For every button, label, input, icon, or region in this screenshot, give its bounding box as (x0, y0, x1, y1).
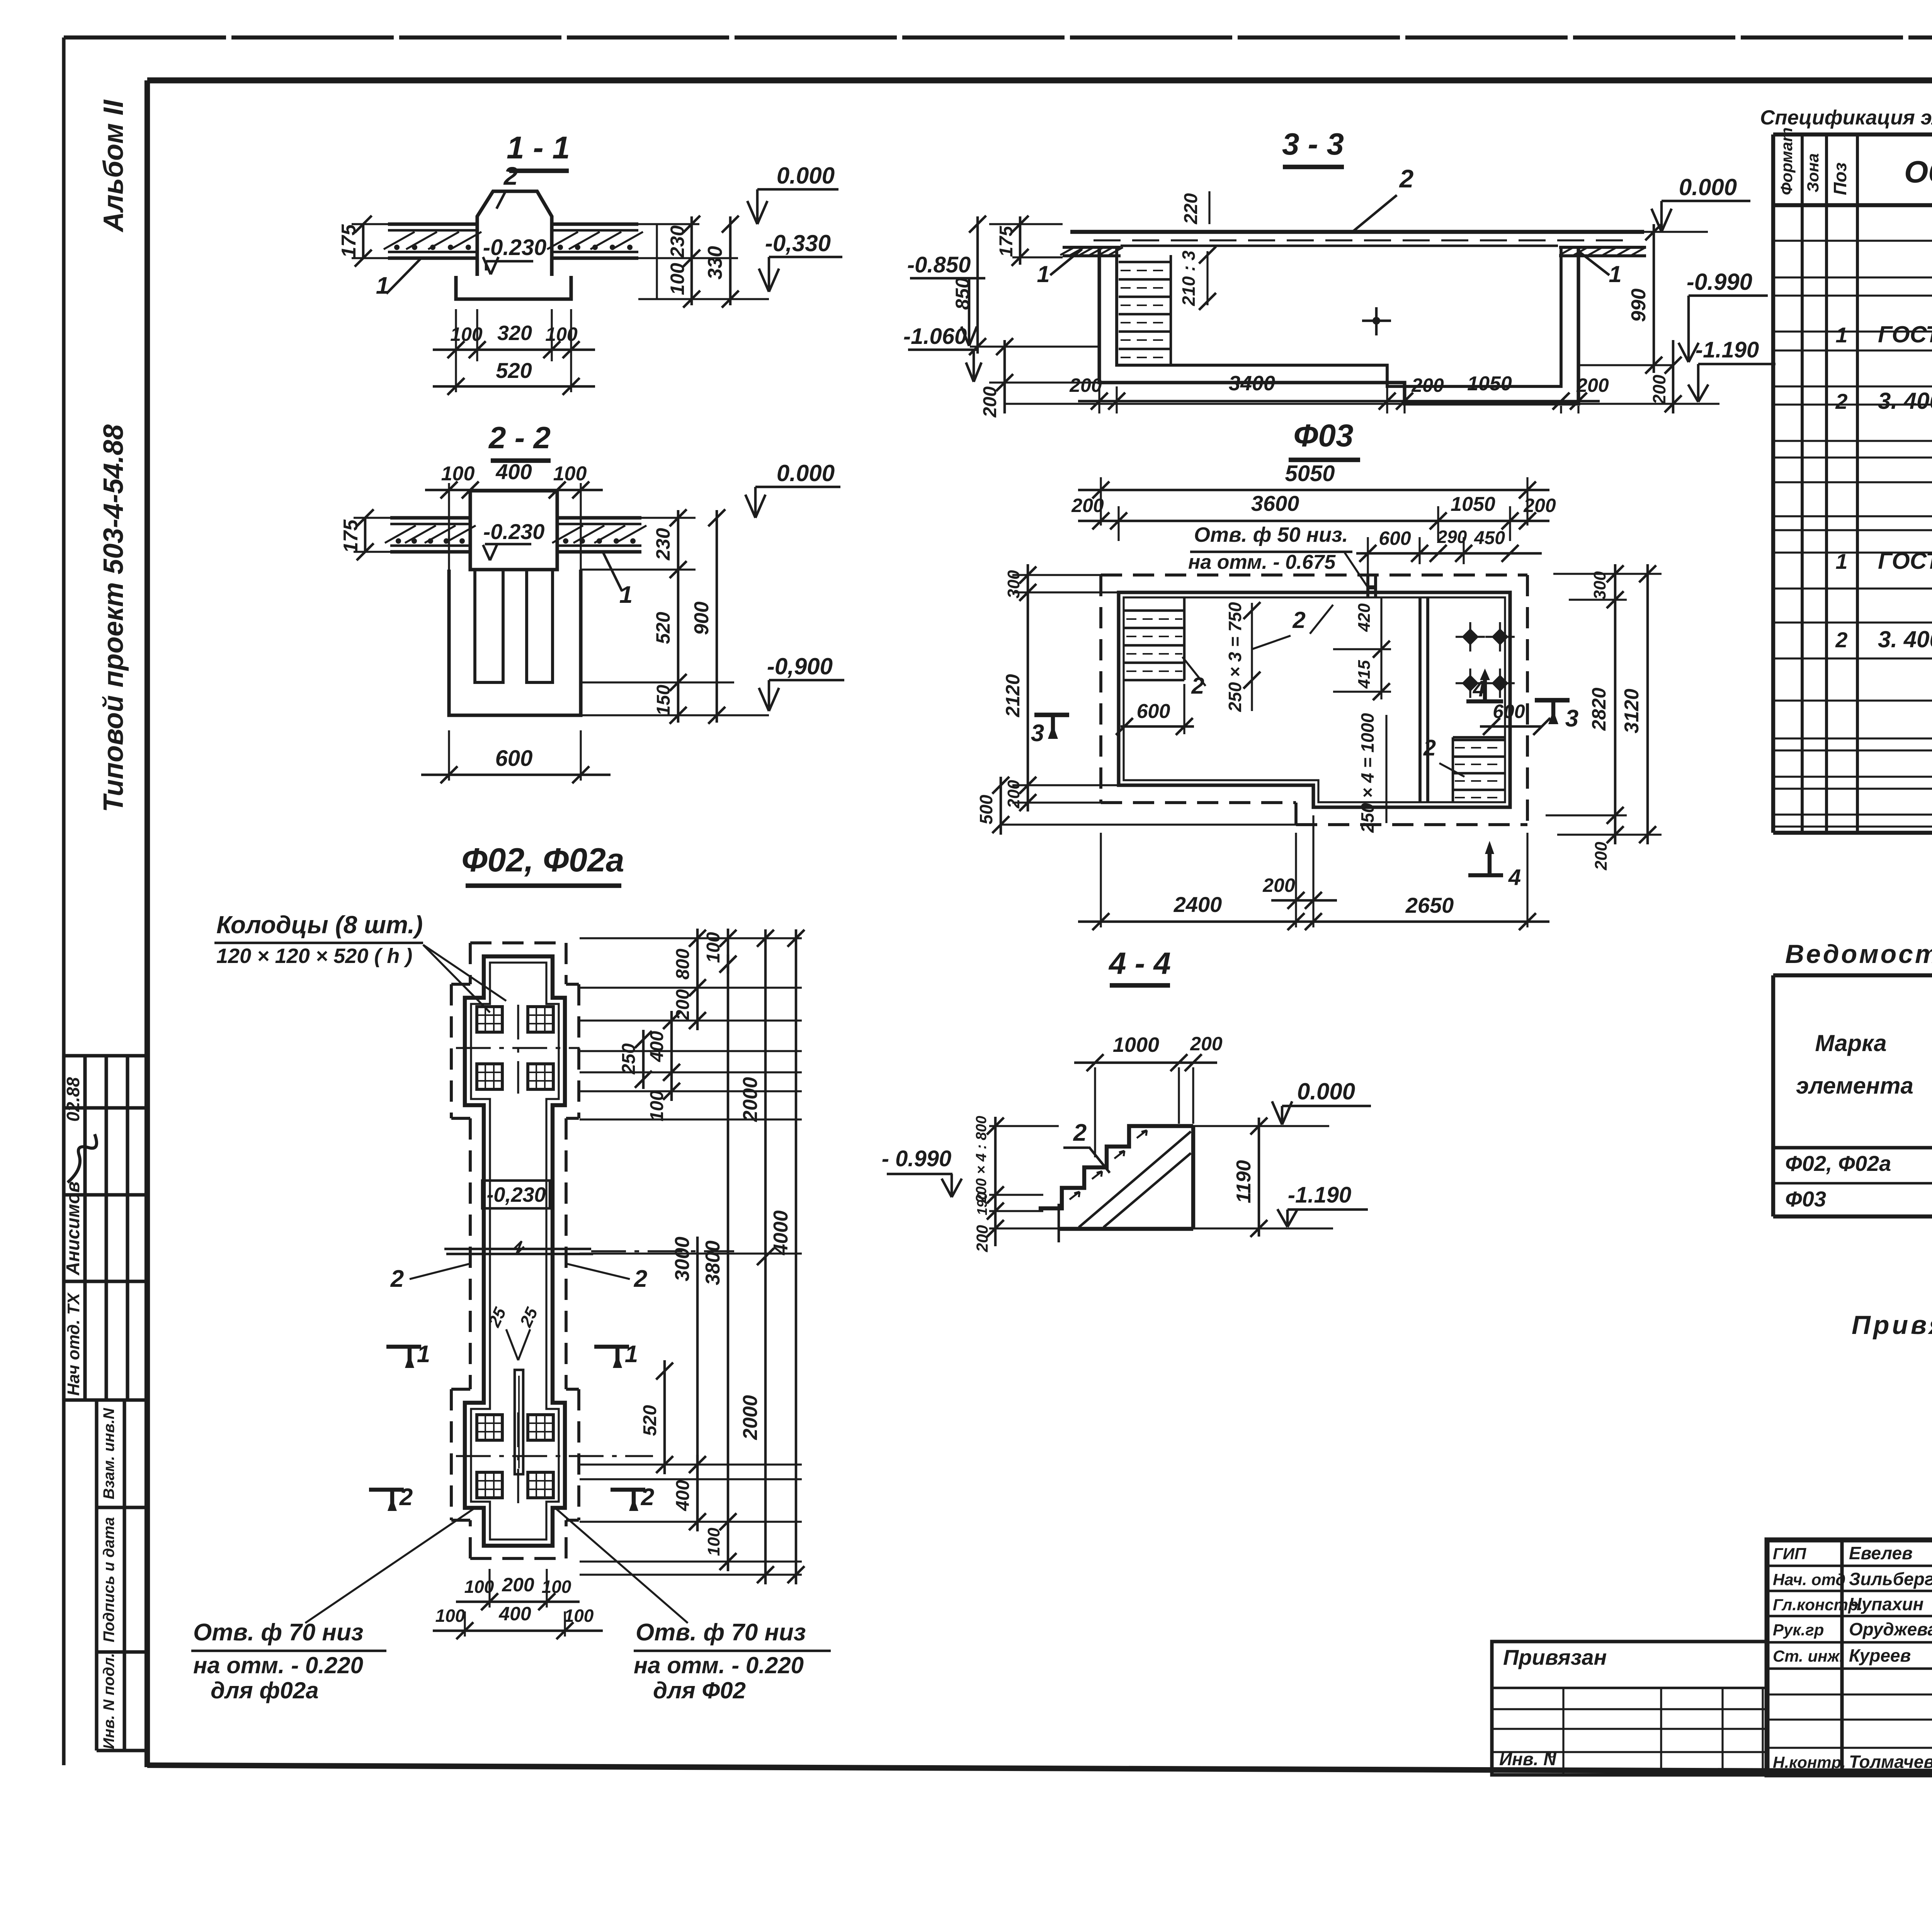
svg-text:100: 100 (564, 1606, 594, 1626)
svg-text:200: 200 (1649, 374, 1669, 405)
svg-text:600: 600 (1137, 700, 1170, 723)
svg-text:100: 100 (435, 1606, 465, 1626)
svg-text:о: о (1549, 1747, 1556, 1760)
svg-text:2: 2 (503, 162, 518, 190)
svg-text:2000: 2000 (739, 1395, 762, 1440)
svg-text:320: 320 (497, 322, 532, 345)
svg-text:Обозначение: Обозначение (1904, 155, 1932, 189)
svg-text:Чупахин: Чупахин (1849, 1594, 1923, 1614)
svg-text:4: 4 (1508, 865, 1521, 890)
svg-text:1: 1 (625, 1341, 638, 1368)
svg-text:100: 100 (542, 1577, 571, 1597)
svg-text:1: 1 (376, 272, 389, 299)
svg-text:Ст. инж.: Ст. инж. (1773, 1647, 1844, 1665)
svg-text:200: 200 (502, 1574, 534, 1596)
svg-text:175: 175 (338, 224, 360, 258)
svg-text:для ф02а: для ф02а (211, 1677, 319, 1703)
svg-text:для Ф02: для Ф02 (653, 1677, 746, 1703)
svg-text:Зильбергов: Зильбергов (1849, 1569, 1932, 1589)
svg-text:2: 2 (634, 1266, 647, 1292)
svg-text:Н.контр.: Н.контр. (1773, 1753, 1846, 1771)
svg-text:Отв. ф 70 низ: Отв. ф 70 низ (636, 1619, 806, 1646)
svg-text:Отв. ф 70 низ: Отв. ф 70 низ (193, 1619, 363, 1646)
svg-text:-1.190: -1.190 (1696, 337, 1759, 362)
svg-text:200: 200 (1069, 374, 1102, 396)
svg-text:2: 2 (399, 1484, 413, 1511)
svg-text:2 - 2: 2 - 2 (488, 420, 551, 455)
svg-text:100: 100 (545, 323, 578, 345)
svg-text:элемента: элемента (1796, 1073, 1913, 1099)
svg-text:Альбом II: Альбом II (98, 99, 129, 233)
svg-text:3400: 3400 (1229, 372, 1275, 395)
svg-text:2: 2 (641, 1484, 654, 1511)
svg-text:250 × 4 = 1000: 250 × 4 = 1000 (1357, 713, 1378, 833)
svg-text:3000: 3000 (671, 1237, 694, 1281)
svg-text:1190: 1190 (1233, 1160, 1255, 1203)
svg-text:520: 520 (652, 612, 674, 644)
svg-text:1050: 1050 (1467, 373, 1512, 395)
svg-text:1: 1 (619, 582, 633, 608)
svg-text:3. 400 - 6 / 76: 3. 400 - 6 / 76 (1878, 388, 1932, 414)
svg-text:200: 200 (1523, 495, 1556, 516)
svg-text:Оруджева: Оруджева (1849, 1619, 1932, 1639)
svg-text:230: 230 (667, 225, 688, 258)
svg-text:-0,230: -0,230 (486, 1183, 546, 1206)
svg-text:300: 300 (1004, 570, 1023, 599)
svg-text:900: 900 (690, 602, 713, 635)
svg-text:200: 200 (1190, 1033, 1223, 1055)
svg-text:3120: 3120 (1621, 689, 1643, 733)
svg-text:4000: 4000 (770, 1210, 792, 1256)
svg-text:Формат: Формат (1777, 128, 1796, 195)
svg-text:600: 600 (1379, 527, 1411, 549)
svg-text:Привязан: Привязан (1503, 1645, 1607, 1669)
svg-text:Ф03: Ф03 (1293, 418, 1353, 453)
svg-text:Анисимов: Анисимов (63, 1181, 83, 1276)
svg-text:200: 200 (1592, 842, 1611, 871)
svg-text:2: 2 (1399, 164, 1414, 193)
svg-text:-0.990: -0.990 (1687, 269, 1752, 295)
svg-text:3800: 3800 (702, 1240, 724, 1285)
svg-text:200: 200 (973, 1225, 991, 1252)
svg-text:420: 420 (1355, 603, 1374, 632)
svg-text:100: 100 (450, 323, 483, 345)
svg-text:3600: 3600 (1251, 491, 1299, 515)
svg-text:4 - 4: 4 - 4 (1108, 946, 1171, 980)
svg-text:1: 1 (1609, 261, 1621, 287)
svg-text:0.000: 0.000 (1297, 1079, 1355, 1104)
svg-text:300: 300 (1590, 571, 1609, 600)
svg-text:Нач отд. ТХ: Нач отд. ТХ (64, 1292, 83, 1396)
svg-text:Инв. N подл.: Инв. N подл. (100, 1653, 117, 1749)
svg-text:0.000: 0.000 (1679, 174, 1737, 200)
svg-text:450: 450 (1474, 528, 1505, 548)
svg-text:- 0.990: - 0.990 (882, 1146, 952, 1171)
svg-text:1: 1 (1835, 549, 1847, 573)
svg-text:200: 200 (1576, 374, 1609, 396)
svg-text:1: 1 (1835, 323, 1847, 347)
svg-text:520: 520 (640, 1405, 660, 1436)
svg-text:Типовой проект 503-4-54.88: Типовой проект 503-4-54.88 (98, 424, 129, 812)
svg-text:Подпись и дата: Подпись и дата (100, 1517, 117, 1642)
svg-text:200: 200 (1004, 780, 1023, 809)
svg-text:3. 400 - 6 / 76: 3. 400 - 6 / 76 (1878, 626, 1932, 652)
svg-text:2: 2 (1835, 628, 1847, 652)
svg-text:200: 200 (1071, 495, 1104, 516)
svg-text:230: 230 (652, 528, 674, 561)
svg-text:Евелев: Евелев (1849, 1543, 1913, 1563)
svg-text:330: 330 (704, 246, 726, 280)
svg-text:Привязку фундаментов см.: Привязку фундаментов см. лист 10 (1852, 1310, 1932, 1340)
svg-text:Рук.гр: Рук.гр (1773, 1621, 1824, 1639)
svg-text:400: 400 (495, 459, 532, 484)
svg-text:3: 3 (1565, 705, 1578, 732)
svg-text:3: 3 (1031, 720, 1044, 747)
svg-text:100: 100 (704, 1528, 723, 1556)
svg-text:Ф02, Ф02а: Ф02, Ф02а (461, 842, 624, 879)
svg-text:250: 250 (619, 1043, 639, 1075)
svg-text:3 - 3: 3 - 3 (1282, 127, 1344, 161)
svg-text:1050: 1050 (1451, 493, 1495, 515)
svg-text:500: 500 (976, 794, 996, 824)
svg-text:2120: 2120 (1002, 674, 1024, 717)
svg-text:Поз: Поз (1830, 162, 1850, 195)
svg-text:2: 2 (1835, 389, 1847, 413)
svg-text:1000: 1000 (1113, 1033, 1159, 1056)
svg-text:-0.850: -0.850 (907, 252, 971, 277)
svg-text:175: 175 (340, 519, 362, 553)
svg-text:Отв. ф 50 низ.: Отв. ф 50 низ. (1194, 523, 1348, 546)
svg-text:-0,330: -0,330 (765, 230, 831, 256)
svg-text:-1.060: -1.060 (903, 324, 967, 349)
svg-text:на отм. - 0.220: на отм. - 0.220 (634, 1652, 804, 1678)
svg-text:400: 400 (498, 1603, 531, 1625)
svg-text:-0.230: -0.230 (483, 235, 546, 260)
svg-text:Нач. отд: Нач. отд (1773, 1570, 1845, 1589)
svg-text:ГОСТ 8478 - 81: ГОСТ 8478 - 81 (1878, 322, 1932, 347)
svg-text:-1.190: -1.190 (1288, 1182, 1351, 1208)
svg-text:290: 290 (1437, 527, 1467, 547)
svg-text:ГОСТ 8478 - 81: ГОСТ 8478 - 81 (1878, 548, 1932, 574)
svg-text:400: 400 (647, 1031, 667, 1062)
svg-text:Марка: Марка (1815, 1030, 1886, 1056)
svg-text:520: 520 (496, 358, 532, 383)
svg-text:Зона: Зона (1804, 153, 1822, 192)
svg-text:2650: 2650 (1405, 893, 1454, 917)
svg-text:Спецификация элементов на ф: Спецификация элементов на фундаменты под… (1760, 106, 1932, 129)
svg-text:2000: 2000 (739, 1077, 762, 1122)
svg-text:990: 990 (1628, 289, 1650, 322)
svg-text:200: 200 (1411, 374, 1444, 396)
svg-text:100: 100 (647, 1090, 667, 1121)
svg-text:600: 600 (495, 746, 533, 771)
svg-text:02.88: 02.88 (63, 1077, 83, 1122)
svg-text:1: 1 (1037, 261, 1049, 287)
svg-text:200: 200 (1262, 874, 1295, 896)
svg-text:2: 2 (1292, 607, 1305, 633)
svg-text:Ведомость расхода стали н: Ведомость расхода стали на элемент, кг. (1785, 939, 1932, 969)
svg-text:250 × 3 = 750: 250 × 3 = 750 (1225, 602, 1245, 712)
svg-text:2400: 2400 (1173, 892, 1222, 917)
svg-text:2820: 2820 (1588, 687, 1610, 731)
svg-text:190: 190 (974, 1192, 990, 1215)
svg-text:100: 100 (703, 932, 724, 963)
svg-text:Куреев: Куреев (1849, 1645, 1911, 1666)
svg-text:Ф03: Ф03 (1785, 1187, 1826, 1211)
svg-text:Ф02, Ф02а: Ф02, Ф02а (1785, 1151, 1891, 1176)
svg-text:на отм. - 0.220: на отм. - 0.220 (193, 1652, 363, 1678)
svg-text:200: 200 (673, 989, 693, 1021)
svg-text:Колодцы (8 шт.): Колодцы (8 шт.) (216, 911, 423, 939)
svg-text:100: 100 (667, 263, 688, 295)
svg-text:150: 150 (653, 685, 674, 716)
svg-text:1: 1 (417, 1341, 430, 1368)
svg-text:0.000: 0.000 (777, 460, 835, 486)
svg-text:100: 100 (553, 463, 587, 485)
svg-text:2: 2 (1073, 1119, 1087, 1146)
svg-text:200 × 4 : 800: 200 × 4 : 800 (973, 1116, 990, 1203)
svg-text:2: 2 (390, 1266, 404, 1292)
svg-text:-0.230: -0.230 (483, 519, 545, 544)
svg-text:100: 100 (441, 463, 475, 485)
svg-text:100: 100 (464, 1577, 494, 1597)
svg-text:220: 220 (1181, 193, 1201, 225)
svg-text:Толмачева: Толмачева (1849, 1752, 1932, 1772)
svg-text:5050: 5050 (1285, 461, 1335, 486)
svg-text:175: 175 (996, 226, 1017, 257)
svg-text:-0,900: -0,900 (767, 653, 833, 679)
svg-text:ГИП: ГИП (1773, 1545, 1806, 1563)
svg-text:1 - 1: 1 - 1 (507, 130, 570, 165)
svg-text:800: 800 (673, 949, 693, 980)
svg-text:2: 2 (1423, 735, 1436, 760)
svg-text:на отм. - 0.675: на отм. - 0.675 (1188, 551, 1336, 573)
svg-text:Взам. инв.N: Взам. инв.N (100, 1408, 117, 1499)
svg-text:0.000: 0.000 (777, 163, 835, 189)
svg-text:415: 415 (1355, 660, 1374, 689)
svg-text:Инв. N: Инв. N (1499, 1749, 1556, 1769)
svg-text:120 × 120 × 520 ( h ): 120 × 120 × 520 ( h ) (216, 944, 412, 968)
svg-text:210 : 3: 210 : 3 (1179, 250, 1199, 306)
svg-text:400: 400 (673, 1480, 693, 1511)
